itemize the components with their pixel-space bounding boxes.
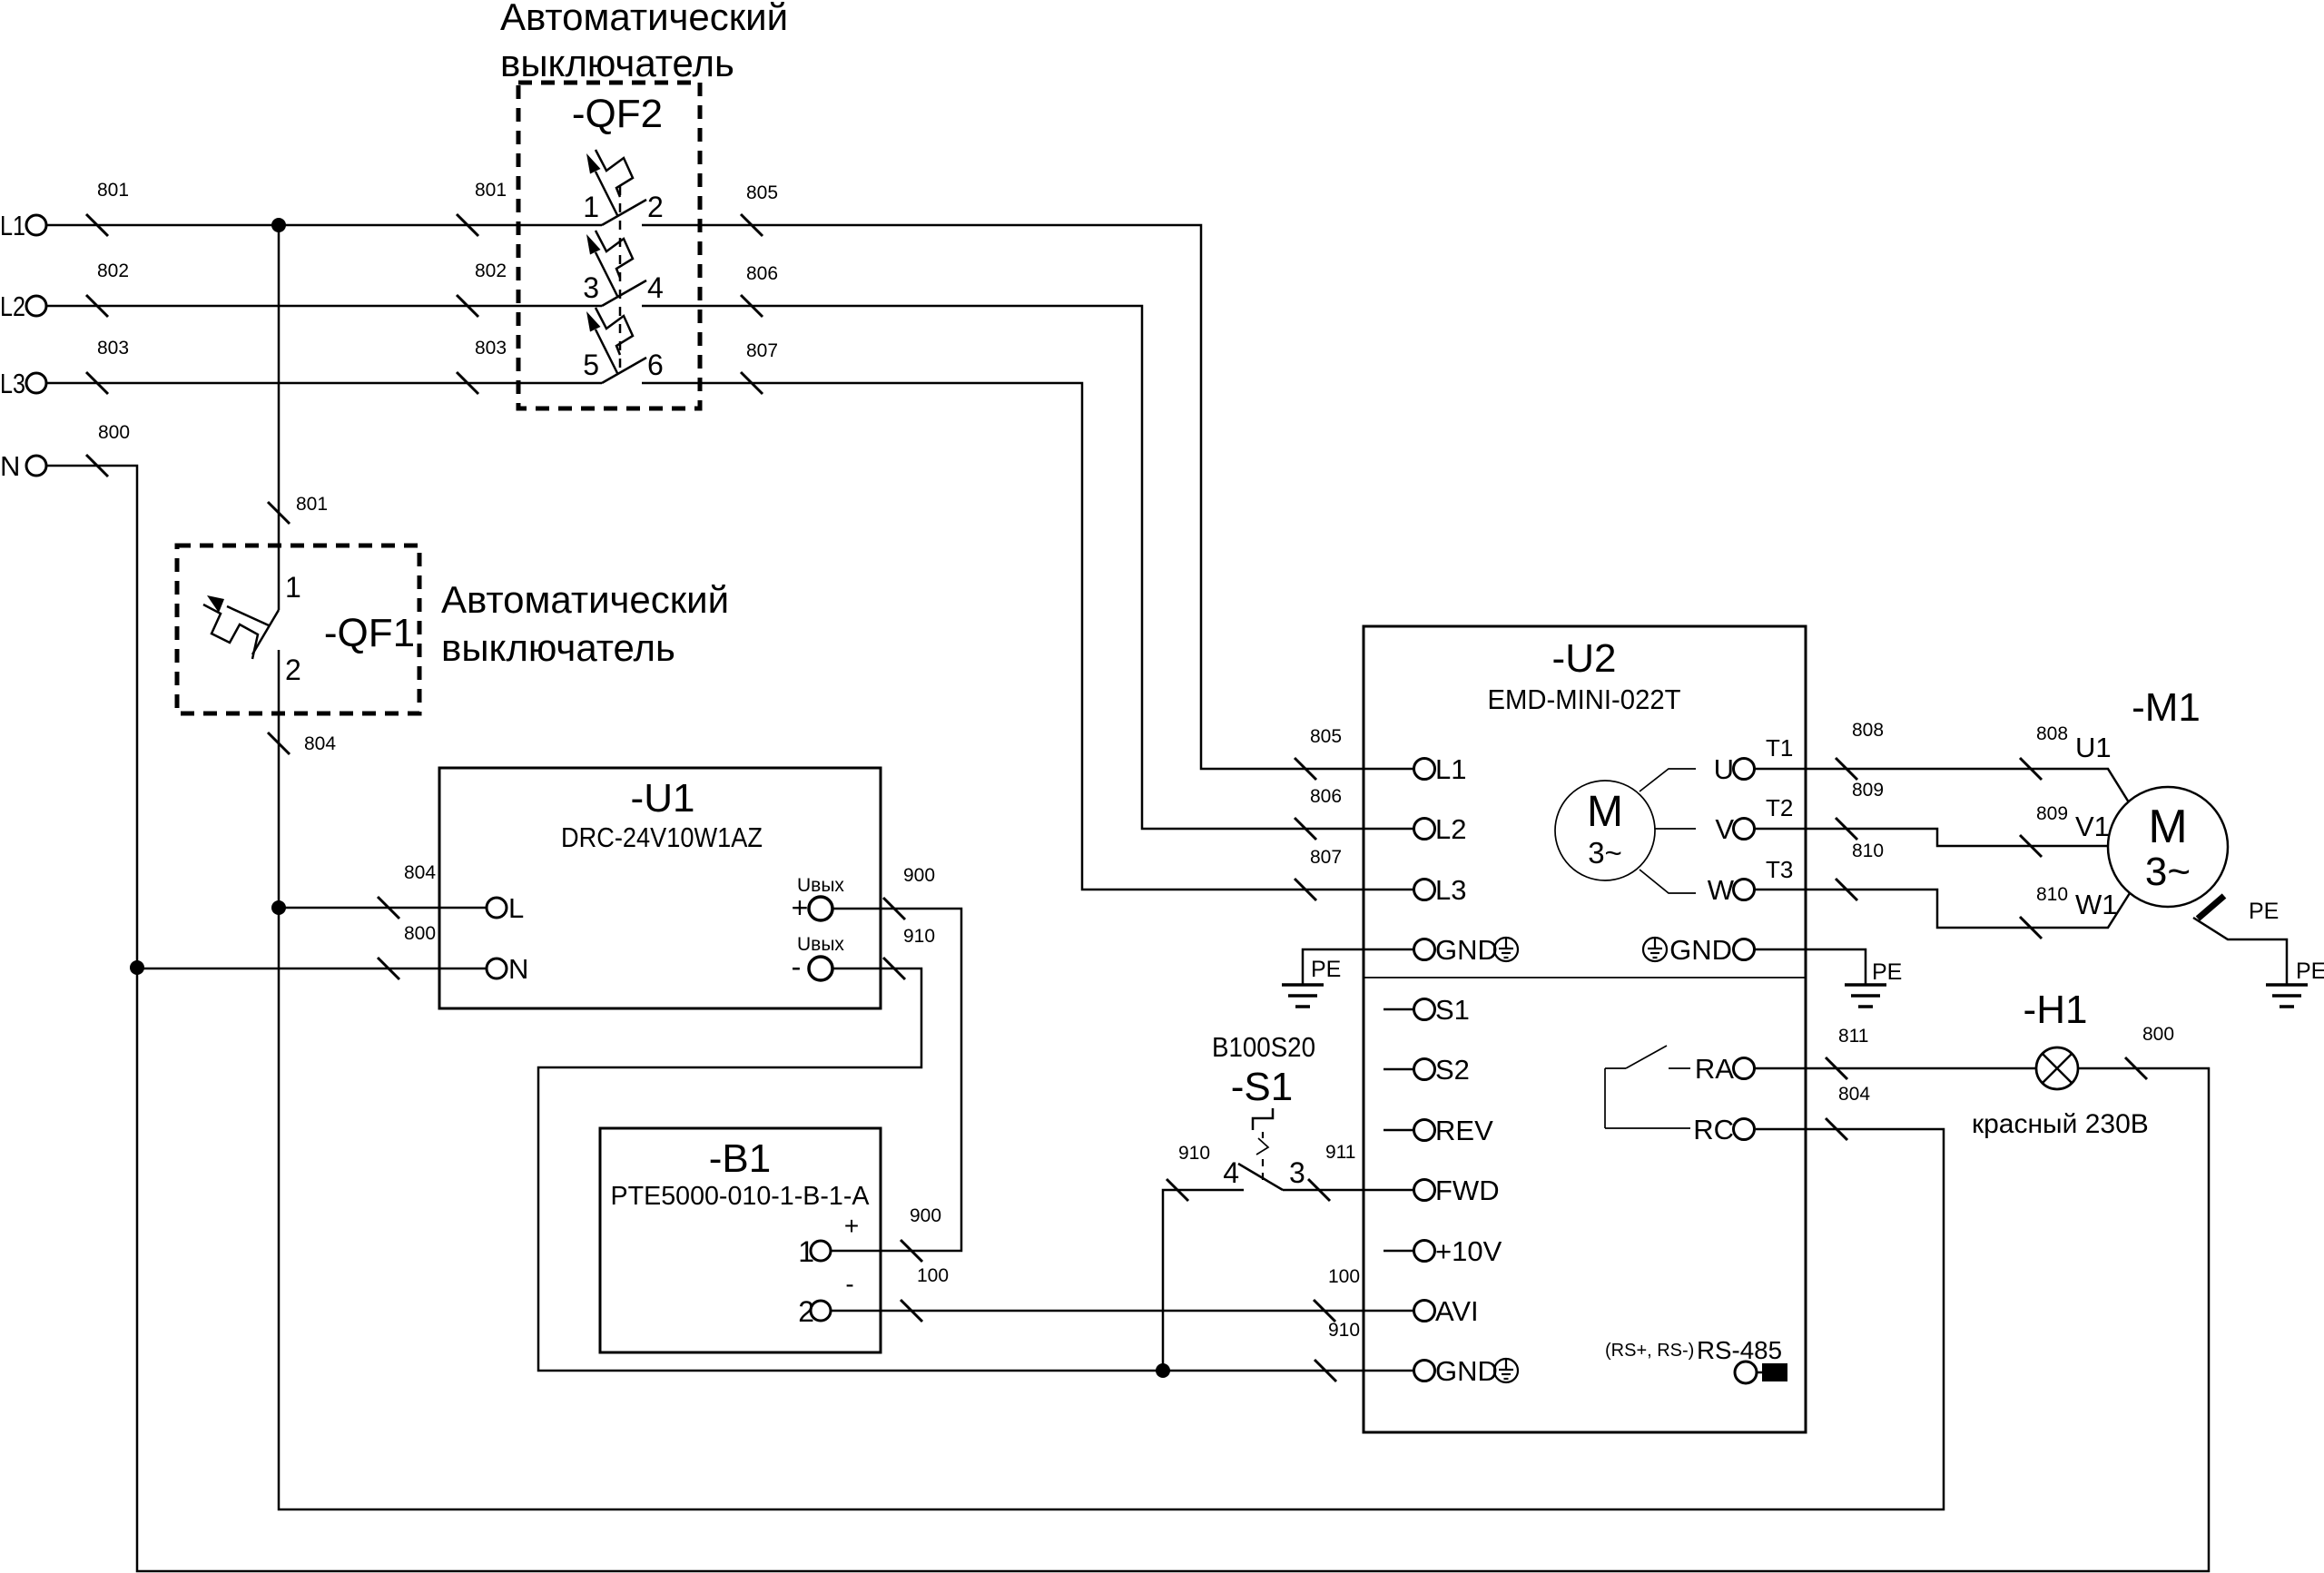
terminal U2 FWD <box>1414 1175 1500 1206</box>
svg-text:L3: L3 <box>0 368 25 399</box>
svg-text:3: 3 <box>583 271 599 304</box>
svg-text:4: 4 <box>647 271 664 304</box>
terminal L3 <box>0 368 46 399</box>
breaker QF2 title <box>500 0 788 84</box>
svg-text:PTE5000-010-1-B-1-A: PTE5000-010-1-B-1-A <box>611 1182 871 1211</box>
svg-text:802: 802 <box>475 261 507 281</box>
node junction 804/U1 <box>271 900 286 915</box>
RS-485 port <box>1605 1336 1787 1383</box>
svg-text:809: 809 <box>1852 780 1884 801</box>
svg-text:B100S20: B100S20 <box>1212 1031 1315 1063</box>
svg-text:Автоматический: Автоматический <box>441 578 729 621</box>
svg-text:800: 800 <box>2142 1024 2174 1045</box>
wire net 809 V to motor V1 <box>1754 780 2110 857</box>
svg-text:6: 6 <box>647 349 664 381</box>
svg-text:L1: L1 <box>1435 753 1466 785</box>
svg-text:2: 2 <box>285 654 301 686</box>
svg-text:809: 809 <box>2036 803 2068 824</box>
svg-text:808: 808 <box>2036 723 2068 744</box>
svg-text:100: 100 <box>1328 1266 1360 1287</box>
svg-text:-: - <box>845 1270 853 1298</box>
wire net 804 to U1 L <box>279 862 487 919</box>
terminal L2 <box>0 290 46 322</box>
svg-text:M: M <box>2148 801 2187 853</box>
ground PE at motor <box>2266 959 2324 1007</box>
svg-text:Автоматический: Автоматический <box>500 0 788 38</box>
terminal B1 pin2 <box>798 1270 853 1328</box>
terminal U1 L <box>487 892 524 924</box>
terminal U2 REV <box>1384 1115 1493 1146</box>
breaker QF2 pole 1-2 <box>583 150 664 225</box>
svg-text:3: 3 <box>1289 1156 1305 1189</box>
svg-text:5: 5 <box>583 349 599 381</box>
wire net 801 drop to QF1 <box>268 225 328 610</box>
svg-text:1: 1 <box>285 571 301 604</box>
svg-text:810: 810 <box>2036 884 2068 905</box>
VFD U2 internal separator <box>1364 977 1806 978</box>
wire net 805 QF2 to U2 L1 <box>642 182 1413 780</box>
svg-text:910: 910 <box>1178 1143 1210 1164</box>
svg-text:900: 900 <box>910 1205 941 1226</box>
svg-text:-QF1: -QF1 <box>324 611 415 655</box>
PE symbol at U2 GND left <box>1494 938 1518 961</box>
svg-text:100: 100 <box>917 1265 949 1286</box>
svg-text:-U1: -U1 <box>631 776 695 821</box>
node junction 910/S1 branch <box>1156 1363 1170 1378</box>
wire U2 GND right to PE ground <box>1754 949 1866 985</box>
svg-text:805: 805 <box>746 182 778 203</box>
terminal U2 GND2 <box>1414 1355 1498 1387</box>
svg-text:804: 804 <box>304 733 336 754</box>
svg-text:803: 803 <box>97 338 129 359</box>
svg-text:L3: L3 <box>1435 874 1466 906</box>
svg-text:AVI: AVI <box>1435 1295 1479 1327</box>
svg-text:808: 808 <box>1852 720 1884 741</box>
svg-text:800: 800 <box>98 422 130 443</box>
breaker QF1 trip unit <box>203 595 269 659</box>
terminal U2 RC <box>1693 1114 1754 1145</box>
svg-text:красный 230В: красный 230В <box>1972 1109 2149 1139</box>
terminal U1 -Uout <box>792 934 845 983</box>
svg-text:L2: L2 <box>0 290 25 322</box>
wire L2 net 802 <box>46 261 602 317</box>
svg-text:L2: L2 <box>1435 813 1466 845</box>
svg-text:810: 810 <box>1852 841 1884 861</box>
svg-text:807: 807 <box>746 340 778 361</box>
ground PE left of U2 <box>1282 957 1341 1007</box>
svg-text:L: L <box>508 892 524 924</box>
svg-text:804: 804 <box>404 862 436 883</box>
svg-text:-S1: -S1 <box>1231 1065 1293 1109</box>
switch S1 actuator dashed link <box>1253 1108 1273 1180</box>
svg-text:EMD-MINI-022T: EMD-MINI-022T <box>1488 683 1681 715</box>
ground PE right of U2 <box>1845 959 1902 1007</box>
wire L1 net 801 <box>46 180 602 236</box>
switch S1 contact <box>1223 1142 1413 1201</box>
wire motor M1 to PE ground <box>2193 918 2287 985</box>
wire L3 net 803 <box>46 338 602 394</box>
svg-text:W1: W1 <box>2075 889 2118 920</box>
terminal U1 +Uout <box>792 875 845 924</box>
svg-text:900: 900 <box>903 865 935 886</box>
wire net 807 QF2 to U2 L3 <box>642 340 1413 900</box>
motor leads inside U2 <box>1640 769 1696 893</box>
svg-text:GND: GND <box>1435 934 1498 966</box>
svg-text:3~: 3~ <box>1588 836 1622 870</box>
svg-text:RC: RC <box>1693 1114 1734 1145</box>
svg-text:S2: S2 <box>1435 1054 1470 1086</box>
svg-text:-U2: -U2 <box>1552 636 1617 681</box>
terminal U1 N <box>487 953 528 985</box>
wire net 800 lamp to N <box>137 968 2209 1571</box>
terminal U2 L2 <box>1414 813 1467 845</box>
svg-text:801: 801 <box>97 180 129 201</box>
svg-text:RS-485: RS-485 <box>1697 1336 1782 1364</box>
svg-text:802: 802 <box>97 261 129 281</box>
svg-text:+: + <box>844 1212 859 1240</box>
svg-text:1: 1 <box>798 1235 814 1268</box>
svg-text:811: 811 <box>1838 1026 1868 1047</box>
svg-text:2: 2 <box>798 1295 814 1328</box>
VFD U2 box <box>1364 626 1806 1432</box>
terminal B1 pin1 <box>798 1212 859 1268</box>
breaker QF2 pole 5-6 <box>583 308 664 383</box>
svg-text:910: 910 <box>1328 1320 1360 1341</box>
svg-text:2: 2 <box>647 191 664 223</box>
terminal U2 L3 <box>1414 874 1467 906</box>
svg-text:804: 804 <box>1838 1084 1870 1105</box>
svg-text:(RS+, RS-): (RS+, RS-) <box>1605 1341 1694 1361</box>
svg-text:V: V <box>1715 813 1734 845</box>
svg-text:3~: 3~ <box>2145 850 2191 894</box>
PE symbol at U2 GND right <box>1643 938 1667 961</box>
svg-text:805: 805 <box>1310 726 1342 747</box>
terminal U2 RA <box>1695 1053 1755 1085</box>
svg-text:N: N <box>0 450 20 482</box>
wire U2 GND left to PE ground <box>1303 949 1413 985</box>
svg-text:PE: PE <box>1311 957 1341 982</box>
svg-text:RA: RA <box>1695 1053 1734 1085</box>
svg-text:-B1: -B1 <box>709 1136 771 1181</box>
svg-text:-: - <box>792 950 802 983</box>
node junction L1/QF1 <box>271 218 286 232</box>
svg-text:W: W <box>1708 874 1735 906</box>
terminal U2 W <box>1708 856 1794 906</box>
wire net 900 U1+ to B1 pin1 <box>831 865 961 1262</box>
wire net 100 B1 pin2 to AVI <box>831 1265 1413 1322</box>
lamp H1 <box>2036 1047 2078 1089</box>
sensor B1 box <box>600 1128 881 1352</box>
svg-text:REV: REV <box>1435 1115 1493 1146</box>
wire net 808 U to motor U1 <box>1754 720 2129 802</box>
svg-text:-H1: -H1 <box>2024 988 2088 1032</box>
svg-text:803: 803 <box>475 338 507 359</box>
wire net 804 RC to QF1 <box>279 908 1944 1509</box>
svg-text:T2: T2 <box>1766 794 1793 821</box>
svg-text:T1: T1 <box>1766 734 1793 762</box>
terminal L1 <box>0 210 46 241</box>
wire net 910 U1- to S1 and GND <box>538 926 1413 1381</box>
svg-text:800: 800 <box>404 923 436 944</box>
motor symbol inside U2 <box>1555 781 1655 880</box>
svg-text:801: 801 <box>296 494 328 515</box>
svg-text:GND: GND <box>1435 1355 1498 1387</box>
svg-text:M: M <box>1587 788 1623 836</box>
svg-text:U1: U1 <box>2075 732 2112 763</box>
svg-text:807: 807 <box>1310 847 1342 868</box>
terminal N <box>0 450 46 482</box>
svg-text:1: 1 <box>583 191 599 223</box>
wire net 804 below QF1 <box>268 732 336 754</box>
svg-text:+10V: +10V <box>1435 1235 1502 1267</box>
svg-text:S1: S1 <box>1435 994 1470 1026</box>
svg-text:4: 4 <box>1223 1156 1239 1189</box>
svg-text:806: 806 <box>1310 786 1342 807</box>
svg-text:T3: T3 <box>1766 856 1793 883</box>
terminal U2 AVI <box>1414 1295 1479 1327</box>
breaker QF1 pole contact <box>252 571 301 908</box>
motor M1 PE slash <box>2198 896 2279 924</box>
svg-text:PE: PE <box>2296 959 2324 984</box>
svg-text:911: 911 <box>1325 1142 1355 1163</box>
svg-text:выключатель: выключатель <box>441 626 675 669</box>
svg-text:DRC-24V10W1AZ: DRC-24V10W1AZ <box>561 821 763 853</box>
terminal U2 GND right <box>1669 934 1754 966</box>
power supply U1 box <box>439 768 881 1008</box>
motor M1 <box>2108 787 2228 907</box>
wire N net 800 (input to U1 N) <box>46 422 487 979</box>
terminal U2 S1 <box>1384 994 1470 1026</box>
breaker QF1 title <box>441 578 729 669</box>
terminal U2 GND left <box>1414 934 1498 966</box>
svg-text:выключатель: выключатель <box>500 42 734 84</box>
terminal U2 U <box>1714 734 1794 785</box>
svg-text:801: 801 <box>475 180 507 201</box>
PE symbol at U2 GND2 <box>1494 1359 1518 1382</box>
terminal U2 S2 <box>1384 1054 1470 1086</box>
breaker QF2 dashed box <box>518 83 700 408</box>
node junction N/U1 <box>130 960 144 975</box>
breaker QF2 linkage dashed line <box>619 186 622 372</box>
svg-text:FWD: FWD <box>1435 1175 1500 1206</box>
svg-text:L1: L1 <box>0 210 25 241</box>
svg-text:-M1: -M1 <box>2132 685 2201 730</box>
svg-text:PE: PE <box>1872 959 1902 985</box>
wire net 806 QF2 to U2 L2 <box>642 263 1413 840</box>
svg-text:910: 910 <box>903 926 935 947</box>
terminal U2 L1 <box>1414 753 1467 785</box>
terminal U2 V <box>1715 794 1793 845</box>
breaker QF1 dashed box <box>177 546 419 713</box>
svg-text:PE: PE <box>2249 899 2279 924</box>
svg-text:U: U <box>1714 753 1734 785</box>
svg-text:N: N <box>508 953 528 985</box>
wire net 810 W to motor W1 <box>1754 841 2130 939</box>
svg-text:+: + <box>792 891 809 924</box>
svg-text:806: 806 <box>746 263 778 284</box>
svg-text:Uвых: Uвых <box>797 934 844 955</box>
wire net 910 branch to S1 pin4 <box>1163 1143 1244 1371</box>
svg-text:-QF2: -QF2 <box>572 92 663 136</box>
svg-text:V1: V1 <box>2075 811 2110 842</box>
wire net 811 RA to lamp H1 <box>1754 1026 2036 1079</box>
breaker QF2 pole 3-4 <box>583 231 664 306</box>
svg-text:GND: GND <box>1669 934 1732 966</box>
terminal U2 +10V <box>1384 1235 1502 1267</box>
relay contact RA-RC <box>1605 1046 1690 1128</box>
